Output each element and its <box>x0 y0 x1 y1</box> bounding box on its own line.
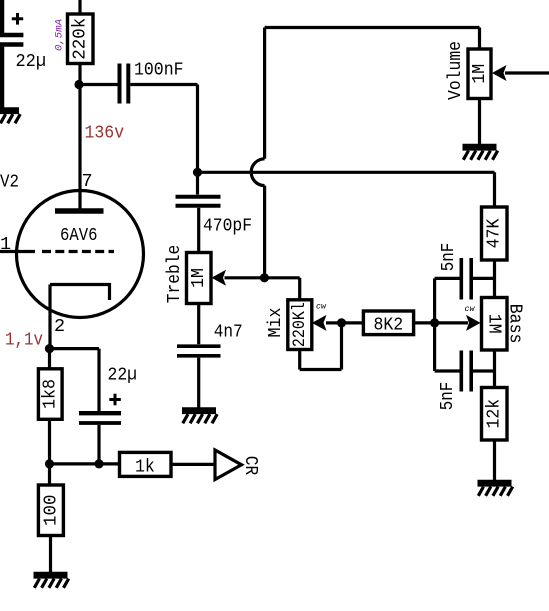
svg-text:1,1v: 1,1v <box>5 330 43 351</box>
svg-text:cw: cw <box>465 304 476 314</box>
svg-text:V2: V2 <box>0 172 19 193</box>
svg-text:220k: 220k <box>70 18 91 60</box>
svg-text:136v: 136v <box>85 123 125 144</box>
svg-text:CR: CR <box>240 456 261 476</box>
svg-text:Mix: Mix <box>265 308 286 338</box>
svg-text:100: 100 <box>40 494 61 526</box>
svg-text:1M: 1M <box>469 64 490 84</box>
svg-text:5nF: 5nF <box>437 382 458 411</box>
svg-text:4n7: 4n7 <box>214 322 243 343</box>
svg-text:Volume: Volume <box>445 41 466 100</box>
svg-text:7: 7 <box>82 171 93 192</box>
svg-text:22µ: 22µ <box>16 51 47 72</box>
svg-text:1M: 1M <box>484 314 505 334</box>
svg-text:cw: cw <box>316 302 327 312</box>
svg-text:1M: 1M <box>188 268 209 288</box>
svg-text:12k: 12k <box>484 399 505 429</box>
svg-text:1: 1 <box>0 234 11 255</box>
svg-text:1k8: 1k8 <box>40 379 61 409</box>
svg-text:220Kl: 220Kl <box>290 302 310 347</box>
svg-text:47K: 47K <box>484 218 505 248</box>
svg-text:Treble: Treble <box>164 245 185 304</box>
svg-text:22µ: 22µ <box>108 365 138 386</box>
svg-text:2: 2 <box>54 316 65 337</box>
svg-text:470pF: 470pF <box>203 216 252 237</box>
svg-text:5nF: 5nF <box>438 243 459 272</box>
svg-text:8K2: 8K2 <box>374 315 404 336</box>
svg-text:100nF: 100nF <box>134 60 184 81</box>
svg-text:1k: 1k <box>135 457 155 478</box>
svg-text:6AV6: 6AV6 <box>60 225 98 246</box>
svg-text:Bass: Bass <box>505 304 526 344</box>
svg-text:0,5mA: 0,5mA <box>54 19 66 51</box>
